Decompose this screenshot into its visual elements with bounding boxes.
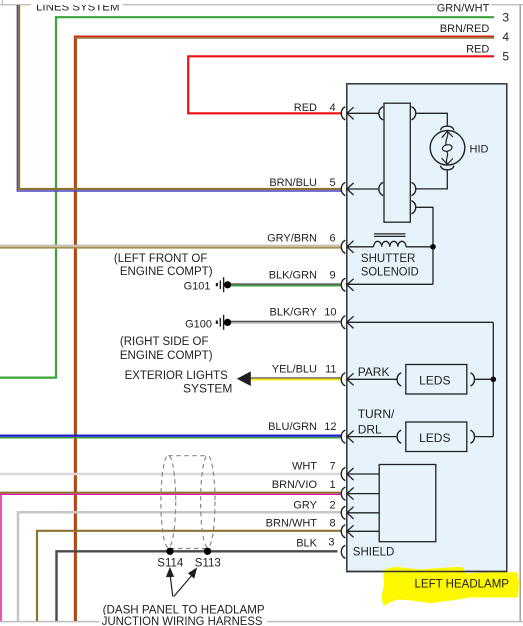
pin 8 connector (341, 525, 379, 538)
junction dot solenoid (430, 244, 436, 250)
svg-text:JUNCTION WIRING HARNESS: JUNCTION WIRING HARNESS (102, 614, 263, 626)
svg-text:3: 3 (328, 537, 334, 549)
svg-text:SHIELD: SHIELD (353, 546, 395, 558)
svg-text:S113: S113 (195, 558, 221, 570)
frame right border (519, 5, 521, 622)
wire GRN/WHT (net 3) (0, 17, 494, 377)
svg-text:GRY: GRY (293, 500, 317, 512)
clipped label LINES SYSTEM (31, 0, 123, 13)
svg-text:(RIGHT SIDE OF: (RIGHT SIDE OF (120, 336, 209, 348)
wire BLK/GRY (pin 10) (231, 322, 342, 323)
svg-text:LEDS: LEDS (419, 431, 450, 445)
svg-text:4: 4 (329, 102, 335, 114)
svg-text:9: 9 (329, 270, 335, 282)
white gap for GRN/WHT label (437, 0, 491, 12)
twisted pair bottom bridge (170, 548, 207, 550)
LEDS box 2 left bracket (397, 430, 401, 443)
svg-text:BRN/WHT: BRN/WHT (266, 518, 318, 530)
HID lamp socket bottom (441, 166, 454, 170)
svg-text:LEDS: LEDS (419, 374, 450, 388)
ground G101 (184, 277, 232, 292)
LEDS box 1 left bracket (397, 373, 401, 386)
wire BLU/GRN (pin 12) (0, 436, 342, 438)
wire YEL/BLU (pin 11) (251, 378, 342, 380)
igniter left bracket row1 (379, 107, 383, 120)
LEDS box 2 (406, 422, 467, 452)
svg-text:(LEFT FRONT OF: (LEFT FRONT OF (114, 253, 207, 265)
pin 6 connector (341, 240, 373, 253)
pin 1 connector (341, 487, 379, 500)
twisted pair top bridge (168, 455, 208, 457)
svg-text:GRN/WHT: GRN/WHT (437, 3, 490, 15)
wire pin10 down to LEDS (492, 322, 494, 436)
svg-text:RED: RED (294, 102, 317, 114)
pin 4 connector (341, 107, 378, 120)
pin 9 connector (341, 278, 433, 291)
white gap on bottom border behind caption (99, 615, 267, 626)
svg-text:7: 7 (329, 461, 335, 473)
igniter right bracket row2 (411, 182, 415, 195)
HID arc tube symbol (442, 131, 453, 164)
wire BLK/GRN (pin 9) (231, 284, 342, 286)
frame top-left tick (2, 0, 4, 5)
svg-text:6: 6 (329, 233, 335, 245)
svg-text:EXTERIOR LIGHTS: EXTERIOR LIGHTS (125, 368, 228, 382)
wire LEDS2 to vertical (475, 436, 493, 438)
igniter/ballast block (384, 103, 410, 222)
svg-text:G100: G100 (185, 319, 212, 331)
pin 10 connector (341, 316, 493, 329)
shutter solenoid core bars (374, 234, 406, 237)
svg-text:YEL/BLU: YEL/BLU (272, 363, 317, 375)
frame top border (0, 4, 523, 6)
pin 3 connector (341, 545, 345, 558)
wire BRN/BLU (pin 5) (17, 5, 341, 191)
svg-text:SHUTTER: SHUTTER (361, 251, 416, 265)
frame bottom border (0, 621, 523, 623)
arrow to exterior lights system (237, 371, 251, 386)
svg-text:TURN/: TURN/ (358, 407, 395, 421)
junction dot LEDS (491, 377, 497, 383)
svg-text:8: 8 (329, 518, 335, 530)
svg-text:4: 4 (502, 30, 509, 44)
svg-text:ENGINE COMPT): ENGINE COMPT) (120, 350, 213, 362)
svg-text:BLU/GRN: BLU/GRN (268, 421, 317, 433)
svg-text:BRN/RED: BRN/RED (440, 23, 490, 35)
wire BLK shield (pin 3) (57, 551, 338, 621)
wire HID bottom to igniter (416, 171, 447, 189)
svg-text:5: 5 (502, 50, 509, 64)
svg-text:GRY/BRN: GRY/BRN (267, 233, 317, 245)
LEDS box 1 right bracket (470, 373, 474, 386)
svg-text:12: 12 (324, 421, 336, 433)
splice S113 (204, 548, 211, 555)
headlamp box (347, 84, 507, 572)
svg-text:11: 11 (325, 363, 336, 375)
wire LEDS1 to junction (475, 378, 493, 380)
splice S114 (166, 548, 173, 555)
svg-text:10: 10 (324, 307, 336, 319)
svg-text:WHT: WHT (292, 461, 317, 473)
pin 7 connector (341, 467, 379, 480)
wire RED (net 5 to pin 4) (188, 56, 494, 113)
twisted pair loop right (201, 456, 215, 548)
svg-text:BLK: BLK (296, 538, 317, 550)
svg-text:G101: G101 (184, 280, 211, 292)
pin 2 connector (341, 506, 379, 519)
svg-text:DRL: DRL (358, 423, 382, 437)
svg-text:BLK/GRY: BLK/GRY (270, 307, 318, 319)
wire WHT (pin 7) (0, 473, 342, 475)
svg-text:3: 3 (502, 11, 509, 25)
svg-text:LEFT HEADLAMP: LEFT HEADLAMP (415, 576, 510, 590)
wire coil to junction (406, 246, 433, 248)
svg-text:PARK: PARK (358, 365, 390, 379)
svg-text:BRN/BLU: BRN/BLU (269, 177, 317, 189)
svg-text:5: 5 (329, 177, 335, 189)
pin 12 connector (341, 430, 397, 443)
svg-text:BRN/VIO: BRN/VIO (272, 479, 318, 491)
arrow to S114 (167, 569, 173, 597)
wire BRN/VIO (pin 1) (0, 493, 342, 621)
shield block (379, 465, 436, 542)
HID bulb circle (430, 131, 465, 166)
box bottom edge over highlight (346, 571, 507, 573)
HID lamp socket top (441, 126, 454, 130)
svg-text:HID: HID (470, 143, 489, 155)
LEDS box 2 right bracket (470, 430, 474, 443)
wire BRN/RED (net 4) (74, 36, 494, 621)
svg-text:RED: RED (466, 44, 489, 56)
ground G100 (185, 315, 231, 331)
svg-text:2: 2 (329, 500, 335, 512)
wire igniter to HID top (416, 113, 447, 125)
yellow highlight (382, 567, 520, 606)
igniter right bracket row1 (411, 107, 415, 120)
pin 11 connector (341, 373, 397, 386)
LEDS box 1 (406, 365, 467, 395)
svg-text:SOLENOID: SOLENOID (361, 265, 419, 279)
svg-text:1: 1 (329, 479, 335, 491)
igniter right bracket row3 (411, 201, 415, 214)
wire igniter row3 to solenoid junction (416, 207, 433, 284)
wire GRY/BRN (pin 6) (0, 246, 342, 248)
wire GRY (pin 2) (18, 512, 342, 621)
svg-text:SYSTEM: SYSTEM (183, 381, 232, 395)
svg-text:ENGINE COMPT): ENGINE COMPT) (120, 266, 213, 278)
svg-text:BLK/GRN: BLK/GRN (269, 270, 317, 282)
wire BRN/WHT (pin 8) (37, 531, 342, 621)
pin 5 connector (341, 182, 378, 195)
twisted pair loop left (161, 456, 176, 548)
arrow to S113 (174, 569, 196, 597)
igniter left bracket row2 (379, 182, 383, 195)
svg-text:S114: S114 (157, 557, 184, 569)
shutter solenoid coil (374, 241, 406, 247)
